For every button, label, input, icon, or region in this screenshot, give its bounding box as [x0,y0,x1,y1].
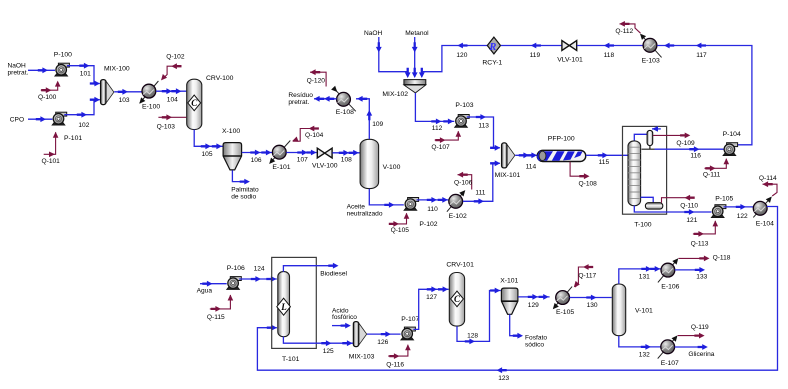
svg-text:121: 121 [686,217,697,224]
svg-text:Q-120: Q-120 [307,78,326,85]
heat exchanger E-104 [753,195,774,228]
stream 121 [634,206,711,224]
svg-text:NaOH: NaOH [364,30,383,37]
svg-text:T-100: T-100 [634,222,652,229]
svg-text:P-100: P-100 [54,51,72,58]
valve VLV-101 [557,41,583,64]
svg-text:Q-107: Q-107 [431,144,450,151]
separator X-100 [222,128,242,170]
svg-text:Q-100: Q-100 [38,94,57,101]
svg-text:RCY-1: RCY-1 [482,59,502,66]
svg-text:T-101: T-101 [282,356,300,363]
svg-text:Q-112: Q-112 [615,28,633,35]
reactor CRV-101 [446,261,474,326]
stream 114 [515,152,537,170]
column boundary box T-101 [272,257,317,348]
svg-text:C: C [454,294,461,304]
stream 126 [367,331,401,346]
svg-text:CRV-101: CRV-101 [446,261,474,268]
energy Q-117 [572,264,597,289]
svg-text:P-105: P-105 [715,195,733,202]
heat exchanger E-108 [331,86,356,116]
stream 117 [657,43,752,145]
svg-text:131: 131 [639,273,650,280]
stream Agua feed [197,281,227,295]
svg-text:Fosfato: Fosfato [525,334,547,341]
svg-text:Q-106: Q-106 [454,179,473,186]
svg-text:132: 132 [639,351,650,358]
pump P-103 [455,102,474,128]
svg-text:Q-101: Q-101 [42,158,61,165]
stream Aceite neutralizado [347,189,404,218]
mixer MIX-103 [349,322,375,361]
svg-text:113: 113 [478,122,489,129]
svg-text:VLV-101: VLV-101 [557,56,583,63]
svg-text:Q-118: Q-118 [713,255,731,262]
stream Palmitato de sodio [231,170,259,200]
energy Q-118 [679,255,731,262]
energy Q-101 [42,132,61,165]
energy Q-120 [307,69,327,86]
svg-text:127: 127 [426,294,437,301]
svg-text:119: 119 [530,52,541,59]
stream 109 [356,96,384,139]
energy Q-115 [207,295,233,322]
mixer MIX-101 [495,143,521,179]
recycle RCY-1 [482,37,502,66]
svg-text:Q-116: Q-116 [386,362,404,369]
condenser [647,130,653,145]
pump P-106 [227,265,245,290]
svg-text:128: 128 [467,333,478,340]
svg-text:104: 104 [167,97,178,104]
svg-text:Q-111: Q-111 [703,172,721,179]
stream into column from 115 [628,154,629,156]
stream 123 loop [257,207,777,383]
svg-text:de sodio: de sodio [231,193,256,200]
svg-text:E-104: E-104 [756,221,774,228]
svg-text:Q-117: Q-117 [578,272,596,279]
energy Q-110 [662,195,699,210]
svg-text:Biodiesel: Biodiesel [320,271,347,278]
svg-text:126: 126 [377,339,388,346]
svg-text:C: C [191,98,198,108]
svg-text:fosfórico: fosfórico [332,314,357,321]
svg-text:Agua: Agua [197,288,213,295]
stream 133 [675,267,708,281]
svg-text:106: 106 [251,157,262,164]
stream 131 [619,266,661,284]
stream 130 [570,295,612,310]
energy Q-112 [615,21,640,35]
stream 102 [64,97,100,129]
stream 101 [67,63,100,87]
svg-text:130: 130 [587,302,598,309]
svg-text:pretrat.: pretrat. [8,69,29,76]
stream 103 [114,89,141,104]
svg-text:P-101: P-101 [64,135,82,142]
energy Q-105 [389,213,410,234]
stream 116 [642,146,724,160]
svg-text:E-103: E-103 [642,58,660,65]
svg-text:103: 103 [119,97,130,104]
energy Q-100 [38,81,61,102]
stream Fosfato sodico [510,314,548,348]
energy Q-113 [691,220,719,247]
heat exchanger E-102 [447,188,468,220]
stream 132 [619,336,661,358]
energy Q-103 [157,114,187,130]
pump P-104 [723,131,741,155]
svg-text:P-106: P-106 [227,265,245,272]
stream NaOH pretrat feed [8,63,56,77]
svg-text:Metanol: Metanol [405,30,429,37]
energy Q-104 [291,126,324,144]
stream 107 [286,150,317,164]
stream Glicerina [675,344,715,358]
svg-text:112: 112 [432,125,443,132]
svg-text:129: 129 [528,302,539,309]
svg-text:CPO: CPO [10,117,24,124]
svg-text:MIX-102: MIX-102 [382,91,408,98]
svg-text:X-100: X-100 [222,128,240,135]
svg-text:116: 116 [690,153,701,160]
svg-text:V-100: V-100 [383,164,401,171]
stream 105 [194,130,222,158]
vessel V-100 [360,139,400,188]
pump P-105 [711,195,733,217]
svg-text:108: 108 [341,157,352,164]
svg-text:CRV-100: CRV-100 [206,75,234,82]
svg-text:E-101: E-101 [272,164,290,171]
stream 119 [501,43,562,59]
svg-text:120: 120 [456,52,467,59]
svg-text:Q-103: Q-103 [157,123,176,130]
svg-text:E-107: E-107 [661,360,679,367]
svg-text:133: 133 [696,274,707,281]
energy Q-116 [386,344,410,369]
pump P-107 [401,316,420,340]
energy Q-107 [431,131,461,151]
stream Biodiesel [283,263,347,278]
mixer MIX-100 [101,65,130,104]
svg-text:107: 107 [297,156,308,163]
heat exchanger E-107 [658,334,680,367]
stream 118 [577,43,643,59]
svg-text:Q-119: Q-119 [691,324,709,331]
heat exchanger E-105 [551,287,575,316]
mixer MIX-102 [382,80,425,99]
stream Metanol feed [405,30,429,78]
svg-text:E-100: E-100 [142,104,160,111]
svg-text:MIX-100: MIX-100 [104,65,130,72]
svg-text:Q-114: Q-114 [759,175,777,182]
stream 106 [242,150,272,164]
stream 125 [283,337,353,355]
svg-text:Q-108: Q-108 [579,181,598,188]
svg-text:109: 109 [372,121,383,128]
heat exchanger E-100 [137,81,160,111]
stream Acido fosforico feed [332,307,357,328]
svg-text:MIX-101: MIX-101 [495,172,521,179]
svg-text:101: 101 [80,71,91,78]
svg-text:L: L [280,302,287,312]
svg-text:102: 102 [78,122,89,129]
svg-text:V-101: V-101 [635,307,653,314]
reboiler [645,203,662,209]
stream 110 [417,197,449,213]
pump P-102 [404,198,438,228]
svg-text:124: 124 [254,266,265,273]
svg-text:X-101: X-101 [500,278,518,285]
stream 127 [413,286,448,329]
stream 128 [457,288,501,345]
svg-text:Q-110: Q-110 [680,202,698,209]
vessel V-101 [612,284,653,336]
svg-text:R: R [488,42,496,53]
stream Residuo pretrat out [288,92,336,106]
svg-text:Glicerina: Glicerina [688,351,714,358]
svg-text:115: 115 [599,159,610,166]
stream 104 [156,88,186,103]
energy Q-102 [159,54,185,83]
stream NaOH feed [364,30,411,78]
energy Q-109 [653,133,695,148]
svg-text:PFP-100: PFP-100 [548,136,575,143]
svg-text:MIX-103: MIX-103 [349,354,375,361]
svg-text:114: 114 [526,164,537,171]
svg-text:neutralizado: neutralizado [347,210,383,217]
svg-text:sódico: sódico [525,341,544,348]
svg-text:Q-109: Q-109 [676,140,695,147]
svg-text:E-102: E-102 [449,213,467,220]
svg-text:122: 122 [737,213,748,220]
wire condenser vent stub [652,126,661,132]
svg-text:P-103: P-103 [455,102,473,109]
svg-text:123: 123 [498,375,509,382]
svg-text:Q-104: Q-104 [305,132,324,139]
svg-text:117: 117 [696,52,707,59]
energy Q-114 [759,175,777,196]
svg-text:125: 125 [323,348,334,355]
stream 120 recycle to mixer [419,43,488,78]
stream 124 [239,266,277,282]
pump P-100 [54,51,72,76]
wire column overhead to condenser [634,134,647,141]
extractor column T-101 [277,272,300,363]
svg-text:Q-115: Q-115 [207,314,225,321]
svg-text:Q-102: Q-102 [166,54,185,61]
svg-text:P-104: P-104 [723,131,741,138]
pump P-101 [52,112,82,142]
svg-text:110: 110 [427,206,438,213]
energy Q-119 [678,324,709,338]
svg-text:118: 118 [604,52,615,59]
heat exchanger E-101 [267,141,291,171]
svg-text:VLV-100: VLV-100 [312,163,338,170]
svg-text:E-108: E-108 [336,109,354,116]
stream 112 [415,93,454,132]
reactor CRV-100 [187,75,234,130]
wire reboiler draw [641,197,654,202]
heat exchanger E-103 [638,32,662,65]
reactor PFP-100 [537,136,586,162]
stream 115 [586,152,628,165]
column boundary box T-100 [623,126,667,214]
valve VLV-100 [312,148,338,169]
stream CPO feed [10,116,53,123]
stream 129 [518,294,550,309]
svg-text:E-105: E-105 [556,309,574,316]
svg-text:Q-113: Q-113 [691,241,709,248]
energy Q-108 [570,162,597,188]
stream 113 [467,114,501,151]
svg-text:111: 111 [475,190,485,197]
energy Q-111 [703,158,729,178]
svg-text:Q-105: Q-105 [391,227,410,234]
svg-text:P-102: P-102 [419,221,437,228]
stream 108 [332,150,359,164]
svg-text:105: 105 [202,151,213,158]
heat exchanger E-106 [658,256,681,290]
svg-text:P-107: P-107 [401,316,419,323]
stream 111 [463,160,500,204]
energy Q-106 [454,172,473,190]
svg-text:pretrat.: pretrat. [288,99,309,106]
separator X-101 [500,278,518,315]
svg-text:E-106: E-106 [661,284,679,291]
stream 122 [724,204,754,220]
tower T-100 [628,141,652,229]
